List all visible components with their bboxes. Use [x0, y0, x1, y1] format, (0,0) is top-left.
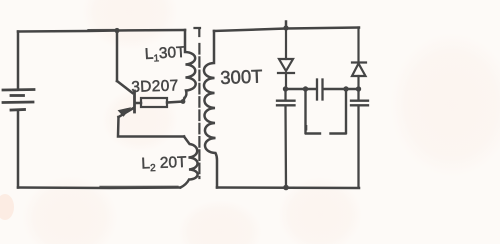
wire resistor right lead to L1 bottom — [167, 98, 185, 103]
transformer core top tick — [195, 28, 201, 36]
wire top right circuit — [214, 28, 359, 32]
node corner blob — [181, 99, 186, 104]
node junction dots on bus — [283, 86, 288, 91]
battery B plates — [3, 90, 34, 111]
capacitor C1 (left, horizontal plates) — [277, 89, 295, 188]
wire collector drop from junction — [116, 31, 119, 81]
diode D1 (pointing down) — [278, 29, 294, 89]
load box (open bottom) — [306, 89, 347, 134]
diode D2 (pointing up) — [352, 28, 366, 89]
wire node bus y=89 left part — [285, 88, 316, 91]
capacitor C3 (right, horizontal plates) — [351, 89, 368, 188]
inductor L1 30T — [185, 30, 196, 98]
node junction bottom left — [283, 185, 289, 191]
wire overdraw texture bottom — [100, 185, 178, 187]
secondary winding 300T — [204, 31, 217, 188]
battery B top lead — [17, 32, 20, 88]
battery B bottom lead — [17, 112, 20, 188]
svg-text:300T: 300T — [220, 66, 263, 88]
inductor L2 20T — [181, 137, 198, 188]
node junction dot top — [114, 28, 119, 33]
wire top-left from battery to junction — [18, 31, 116, 32]
capacitor C2 (series, vertical plates) — [317, 80, 323, 100]
wire node bus y=89 right part — [324, 88, 360, 91]
wire emitter to L2 top — [118, 117, 184, 137]
resistor R — [141, 98, 167, 107]
wire base lead — [135, 102, 141, 105]
label L1 30T — [144, 44, 186, 65]
transistor Q 3D207 — [117, 81, 135, 117]
wire top-mid junction to L1 top — [117, 29, 185, 32]
wire overdraw texture top — [88, 29, 115, 31]
transformer core dashed line — [198, 44, 200, 178]
node junction dot D1 top with overshoot — [285, 22, 288, 29]
wire bottom right circuit — [217, 186, 359, 189]
wire bottom-left from battery to L2 — [18, 186, 180, 189]
svg-text:3D207: 3D207 — [131, 77, 179, 96]
